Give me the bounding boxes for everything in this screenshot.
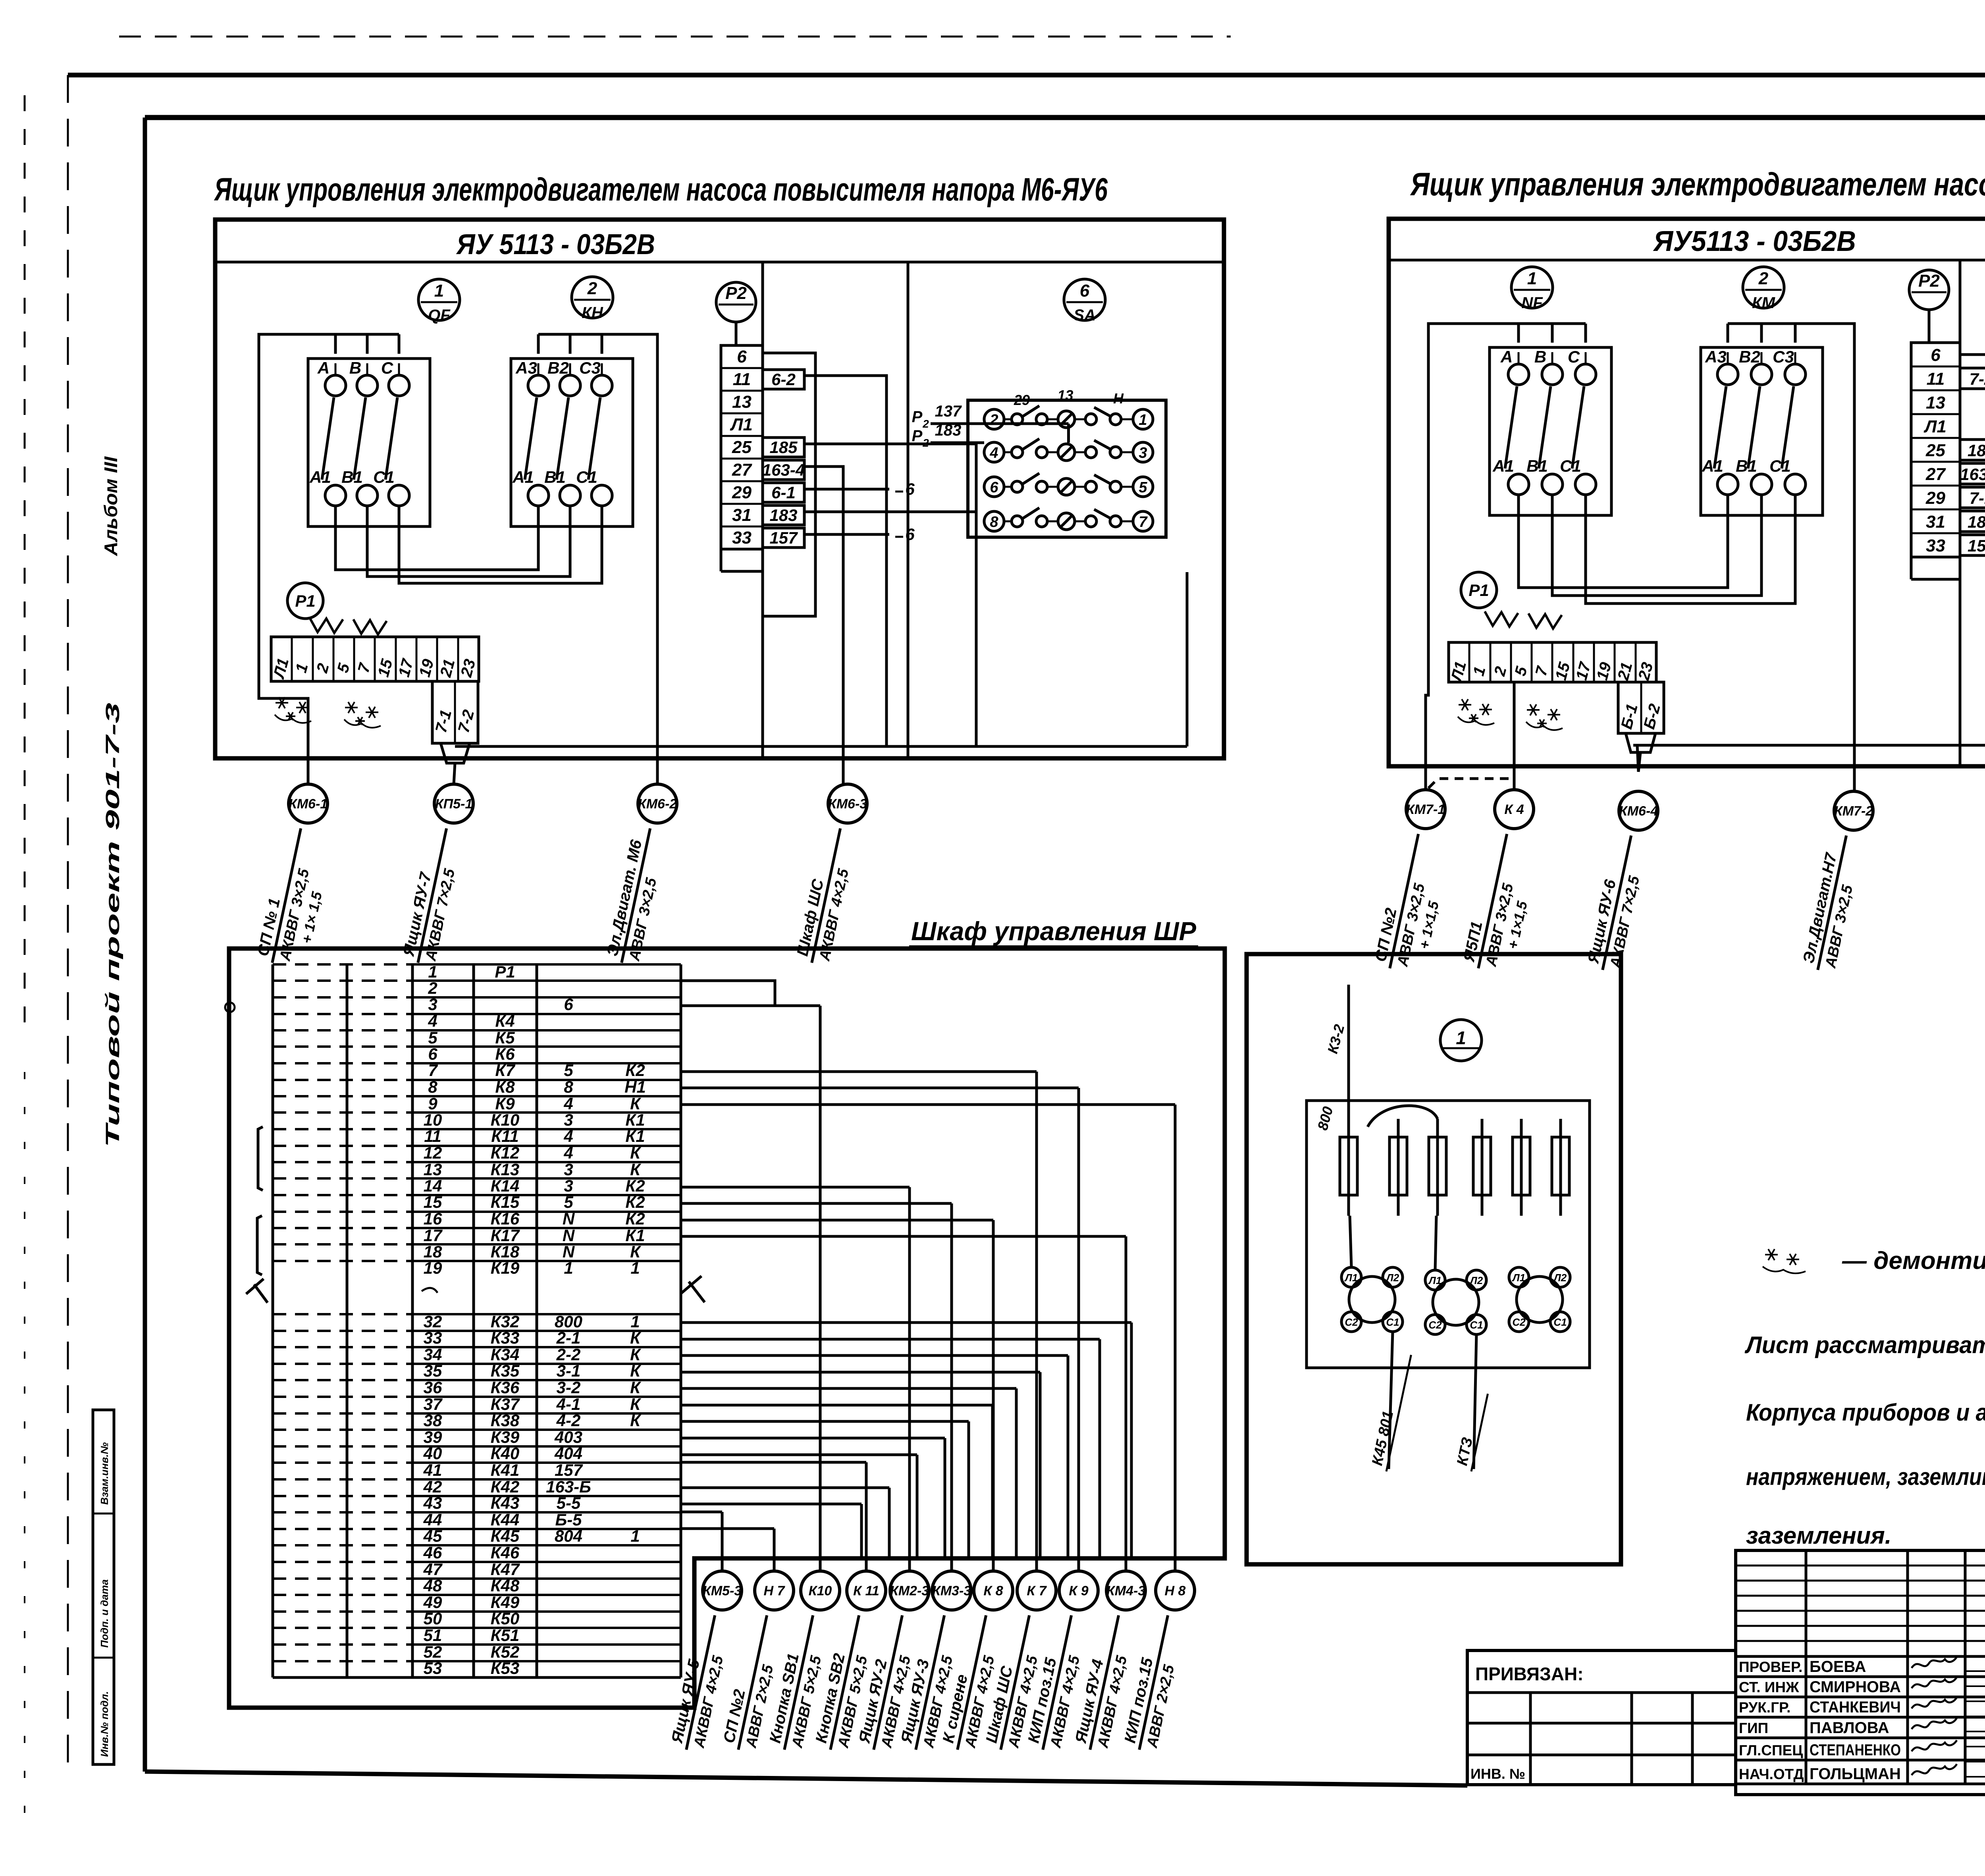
svg-text:2: 2 xyxy=(1758,269,1769,288)
svg-text:А3: А3 xyxy=(515,359,537,377)
svg-text:К35: К35 xyxy=(491,1361,520,1380)
svg-text:К37: К37 xyxy=(491,1395,520,1413)
wire: KN feeder bus to KM6-2 xyxy=(538,334,657,784)
svg-text:6-2: 6-2 xyxy=(771,370,796,389)
svg-text:СТЕПАНЕНКО: СТЕПАНЕНКО xyxy=(1810,1741,1901,1759)
svg-text:41: 41 xyxy=(423,1461,442,1479)
svg-text:Л1: Л1 xyxy=(1923,417,1946,436)
svg-text:А3: А3 xyxy=(1705,347,1727,366)
cable label К 9 xyxy=(1024,1611,1091,1754)
switch blade xyxy=(1782,386,1794,469)
switch blade xyxy=(322,397,334,480)
svg-text:ГОЛЬЦМАН: ГОЛЬЦМАН xyxy=(1810,1765,1901,1783)
svg-text:К34: К34 xyxy=(491,1345,520,1364)
fuse panel inner rect xyxy=(1307,1101,1590,1368)
pin В2 xyxy=(1751,364,1772,385)
svg-text:1: 1 xyxy=(1527,269,1537,288)
signature table xyxy=(1736,1550,1985,1795)
wire bundle extra nets xyxy=(681,1321,1131,1324)
svg-text:К45: К45 xyxy=(491,1527,520,1545)
wire F1 to T1 xyxy=(1350,1216,1351,1267)
svg-text:13: 13 xyxy=(1057,387,1073,403)
signature ГОЛЬЦМАН xyxy=(1912,1764,1957,1775)
wire: QF feeder loop to KM6-1 xyxy=(259,334,399,784)
svg-text:НАЧ.ОТД: НАЧ.ОТД xyxy=(1739,1766,1804,1782)
svg-text:К1: К1 xyxy=(625,1226,645,1245)
svg-text:8: 8 xyxy=(564,1078,573,1096)
svg-text:5: 5 xyxy=(564,1193,573,1211)
svg-text:7-2: 7-2 xyxy=(1970,370,1985,388)
switch blade xyxy=(1714,386,1726,469)
wire row to tag 5 xyxy=(681,1186,910,1189)
svg-text:КП5-1: КП5-1 xyxy=(435,796,473,812)
fuse F5 xyxy=(1520,1119,1523,1216)
terminal table rows xyxy=(412,963,681,966)
switch blade xyxy=(588,397,600,480)
cable tag KM6-2 xyxy=(638,784,677,823)
signature СМИРНОВА xyxy=(1912,1677,1957,1688)
fuse F2 xyxy=(1397,1119,1400,1216)
switch blade xyxy=(1572,386,1584,469)
svg-text:1: 1 xyxy=(564,1259,573,1277)
control box YaU7 outline xyxy=(1389,219,1985,766)
svg-text:SА: SА xyxy=(1073,307,1096,324)
svg-text:157: 157 xyxy=(1968,536,1985,555)
pin С xyxy=(1575,364,1596,385)
svg-text:Лист рассматривать совместно с: Лист рассматривать совместно с листами 1… xyxy=(1744,1332,1985,1358)
svg-text:К: К xyxy=(630,1094,642,1113)
svg-text:157: 157 xyxy=(769,528,798,547)
svg-text:К36: К36 xyxy=(491,1378,520,1397)
svg-text:183: 183 xyxy=(769,506,797,524)
svg-text:46: 46 xyxy=(423,1543,442,1562)
svg-text:К49: К49 xyxy=(491,1593,520,1612)
svg-text:К2: К2 xyxy=(625,1176,645,1195)
svg-text:К: К xyxy=(630,1395,642,1413)
svg-text:Взам.инв.№: Взам.инв.№ xyxy=(98,1442,110,1505)
svg-text:3: 3 xyxy=(428,995,437,1014)
cable label КМ4-3 xyxy=(1071,1611,1139,1754)
svg-text:2: 2 xyxy=(428,979,437,997)
cable tag К10 xyxy=(801,1571,840,1610)
svg-text:10: 10 xyxy=(424,1111,442,1129)
svg-text:5: 5 xyxy=(564,1061,573,1080)
svg-text:К 9: К 9 xyxy=(1069,1583,1088,1598)
svg-text:С3: С3 xyxy=(1773,347,1794,366)
svg-text:Р2: Р2 xyxy=(1918,271,1940,291)
wire bus QF-KM phase A xyxy=(1519,495,1728,588)
svg-text:К19: К19 xyxy=(491,1259,520,1277)
svg-text:ПРИВЯЗАН:: ПРИВЯЗАН: xyxy=(1475,1664,1584,1684)
pin С1 xyxy=(1575,474,1596,495)
svg-text:Б-5: Б-5 xyxy=(555,1510,582,1529)
cable tag К 11 xyxy=(847,1571,886,1610)
pin С xyxy=(389,375,409,396)
signature СТЕПАНЕНКО xyxy=(1912,1740,1957,1751)
breaker QF contact block xyxy=(1490,347,1611,515)
left bracket marks xyxy=(258,1127,263,1190)
svg-text:К8: К8 xyxy=(495,1078,515,1096)
cable tag КМ4-3 xyxy=(1106,1571,1145,1610)
svg-text:К46: К46 xyxy=(491,1543,520,1562)
pin А1 xyxy=(528,485,549,506)
svg-text:ЯУ5113 - 03Б2В: ЯУ5113 - 03Б2В xyxy=(1653,226,1856,257)
svg-text:К38: К38 xyxy=(491,1411,520,1430)
svg-text:6: 6 xyxy=(564,995,573,1014)
svg-text:42: 42 xyxy=(423,1477,442,1496)
wire F3 to T2 xyxy=(1435,1216,1436,1270)
svg-text:КМ2-3: КМ2-3 xyxy=(890,1583,929,1598)
svg-text:Р2: Р2 xyxy=(725,283,747,303)
wire row to tag 4 xyxy=(681,1461,866,1464)
svg-text:4: 4 xyxy=(563,1143,573,1162)
svg-text:К 7: К 7 xyxy=(1027,1583,1047,1598)
pin А1 xyxy=(325,485,346,506)
svg-text:4: 4 xyxy=(989,445,998,461)
svg-text:13: 13 xyxy=(1926,393,1945,413)
pin А1 xyxy=(1717,474,1738,495)
svg-text:25: 25 xyxy=(1925,441,1945,460)
cable tag KM6-1 xyxy=(289,784,328,823)
svg-text:Инв.№ подл.: Инв.№ подл. xyxy=(98,1691,110,1757)
relay P1 circle xyxy=(287,583,323,619)
svg-text:КМ7-2: КМ7-2 xyxy=(1834,804,1873,819)
svg-text:31: 31 xyxy=(1926,512,1945,532)
svg-text:7: 7 xyxy=(428,1061,438,1080)
svg-text:С: С xyxy=(381,359,393,377)
internal divider 2 xyxy=(907,262,910,758)
svg-text:— демонтировать: — демонтировать xyxy=(1842,1247,1985,1274)
svg-text:11: 11 xyxy=(1927,369,1945,389)
svg-text:К50: К50 xyxy=(491,1609,520,1628)
svg-text:804: 804 xyxy=(555,1527,582,1545)
svg-text:6: 6 xyxy=(990,479,998,496)
svg-text:6: 6 xyxy=(737,347,747,366)
svg-text:15: 15 xyxy=(424,1193,442,1211)
svg-text:Н1: Н1 xyxy=(624,1078,646,1096)
svg-text:Корпуса приборов и аппаратов,: Корпуса приборов и аппаратов, которые мо… xyxy=(1746,1399,1985,1426)
switch SA designator circle 6/SA xyxy=(1064,279,1105,320)
svg-text:1: 1 xyxy=(434,281,444,301)
breaker QF designator circle 1/QF xyxy=(418,279,460,320)
cable label К10 xyxy=(765,1611,833,1754)
svg-text:6: 6 xyxy=(1931,345,1941,365)
note demontage legend xyxy=(1765,1254,1778,1255)
wire bus QF-KM phase C xyxy=(1586,495,1795,603)
dashed link KM7-1 to K4 xyxy=(1428,779,1509,788)
svg-text:КМ6-3: КМ6-3 xyxy=(828,796,867,812)
switch blade xyxy=(1505,386,1517,469)
svg-text:К41: К41 xyxy=(491,1461,520,1479)
terminal strip P2 circle xyxy=(1909,270,1949,310)
terminal strip 7-1/7-2 xyxy=(432,681,478,743)
wire net 185 xyxy=(804,444,976,746)
svg-text:КМ: КМ xyxy=(1752,294,1776,312)
pin А1 xyxy=(1508,474,1529,495)
table break marks xyxy=(246,1279,268,1303)
svg-text:К48: К48 xyxy=(491,1576,520,1595)
SA contact row 6-5 xyxy=(984,477,1004,497)
wire K3-2 riser xyxy=(1347,985,1350,1119)
wire net 6-2 xyxy=(804,376,887,746)
wire T2 C1 down KTZ xyxy=(1474,1334,1476,1469)
fuse F3 xyxy=(1436,1119,1439,1216)
node circle on edge xyxy=(225,1003,235,1012)
svg-text:КМ6-1: КМ6-1 xyxy=(289,796,328,812)
pin В xyxy=(1542,364,1563,385)
svg-text:6: 6 xyxy=(905,480,915,498)
wire arc F1-F3 xyxy=(1368,1106,1438,1127)
SA contact row 4-3 xyxy=(984,442,1004,462)
svg-text:С1: С1 xyxy=(1386,1316,1399,1328)
svg-text:40: 40 xyxy=(423,1444,442,1463)
switch blade xyxy=(557,397,569,480)
svg-text:34: 34 xyxy=(424,1345,442,1364)
wire P2 circle to table xyxy=(735,322,738,345)
wire bus QF-KN phase C xyxy=(399,506,602,583)
svg-text:31: 31 xyxy=(732,505,752,525)
svg-text:Ящик управления электродвига: Ящик управления электродвигателем насоса… xyxy=(1410,166,1985,202)
fuse F4 xyxy=(1481,1119,1484,1216)
svg-text:25: 25 xyxy=(732,438,752,457)
wire net 183 xyxy=(804,511,976,513)
svg-text:4: 4 xyxy=(428,1012,437,1030)
cable label SP1 xyxy=(253,824,337,970)
cable tag КМ3-3 xyxy=(932,1571,971,1610)
svg-text:QF: QF xyxy=(428,307,451,324)
svg-text:N: N xyxy=(563,1209,575,1228)
svg-text:Типовой проект 901-7-3: Типовой проект 901-7-3 xyxy=(102,702,123,1147)
pin В2 xyxy=(560,375,580,396)
svg-text:ИНВ. №: ИНВ. № xyxy=(1470,1766,1525,1782)
wire row to tag 7 xyxy=(681,1219,993,1222)
svg-text:К6: К6 xyxy=(495,1045,515,1063)
svg-text:К40: К40 xyxy=(491,1444,520,1463)
svg-text:К10: К10 xyxy=(809,1583,832,1598)
svg-text:В: В xyxy=(349,359,361,377)
svg-text:1: 1 xyxy=(428,962,437,981)
transformer T2 xyxy=(1433,1279,1479,1325)
svg-text:6: 6 xyxy=(428,1045,437,1063)
svg-text:12: 12 xyxy=(424,1143,442,1162)
svg-text:157: 157 xyxy=(555,1461,583,1479)
svg-text:47: 47 xyxy=(423,1560,443,1579)
svg-text:3: 3 xyxy=(564,1111,573,1129)
svg-text:К1: К1 xyxy=(625,1111,645,1129)
svg-text:6: 6 xyxy=(905,525,915,544)
svg-text:К 11: К 11 xyxy=(853,1583,879,1598)
wire bus QF-KM phase B xyxy=(1552,495,1761,596)
outer frame xyxy=(68,73,1985,77)
svg-text:Л2: Л2 xyxy=(1469,1274,1483,1286)
svg-text:3-1: 3-1 xyxy=(557,1361,581,1380)
svg-text:Л1: Л1 xyxy=(1512,1272,1525,1284)
svg-text:1: 1 xyxy=(630,1259,640,1277)
svg-text:К14: К14 xyxy=(491,1176,520,1195)
cable label КМ3-3 xyxy=(897,1611,964,1754)
svg-text:38: 38 xyxy=(424,1411,442,1430)
svg-text:К10: К10 xyxy=(491,1111,520,1129)
svg-text:52: 52 xyxy=(424,1643,442,1661)
pin А3 xyxy=(528,375,549,396)
pin А3 xyxy=(1717,364,1738,385)
page edge artifact top xyxy=(119,36,1231,38)
svg-text:8: 8 xyxy=(428,1078,437,1096)
contactor KM contact block xyxy=(1701,347,1823,515)
svg-text:Р: Р xyxy=(912,408,923,426)
plug connector xyxy=(1626,733,1655,752)
svg-text:КМ6-4: КМ6-4 xyxy=(1619,804,1658,819)
svg-text:С2: С2 xyxy=(1345,1316,1358,1328)
svg-text:Л2: Л2 xyxy=(1553,1272,1567,1284)
svg-text:В1: В1 xyxy=(1526,457,1548,475)
svg-text:51: 51 xyxy=(424,1626,442,1645)
svg-text:183: 183 xyxy=(1968,441,1985,460)
switch blade xyxy=(385,397,397,480)
pin С1 xyxy=(1785,474,1806,495)
wire row to tag 10 xyxy=(681,1235,1126,1238)
svg-text:К53: К53 xyxy=(491,1659,520,1677)
svg-text:К11: К11 xyxy=(491,1127,518,1145)
switch blade xyxy=(525,397,537,480)
breaker QF designator circle 1/NF xyxy=(1511,267,1553,308)
designator circle 1 xyxy=(1440,1020,1482,1061)
svg-text:N: N xyxy=(563,1242,575,1261)
svg-text:Ящик упровления электродвигате: Ящик упровления электродвигателем насоса… xyxy=(214,172,1108,208)
svg-text:К2: К2 xyxy=(625,1061,645,1080)
svg-text:КМ6-2: КМ6-2 xyxy=(638,796,677,812)
cable label К 7 xyxy=(982,1611,1049,1754)
svg-text:С1: С1 xyxy=(1560,457,1581,475)
terminal strip P1 xyxy=(271,637,479,681)
wire net 6 loop xyxy=(1960,355,1985,745)
signature БОЕВА xyxy=(1912,1657,1957,1668)
wire net 6-1 stub xyxy=(804,488,889,491)
box type label xyxy=(215,261,1224,264)
svg-text:К: К xyxy=(630,1328,642,1347)
svg-text:29: 29 xyxy=(732,483,752,502)
svg-text:48: 48 xyxy=(423,1576,442,1595)
svg-text:К15: К15 xyxy=(491,1193,520,1211)
switch SA contact block xyxy=(968,400,1166,537)
cable tag KM5-1 xyxy=(434,784,473,823)
svg-text:В1: В1 xyxy=(1736,457,1757,475)
svg-text:напряжением, заземлить, присое: напряжением, заземлить, присоединением к… xyxy=(1746,1463,1985,1490)
svg-text:27: 27 xyxy=(1925,465,1946,484)
box type label xyxy=(1389,259,1985,262)
svg-text:В2: В2 xyxy=(1739,347,1760,366)
wire row to tag 8 xyxy=(681,1070,1037,1073)
svg-text:6: 6 xyxy=(1080,281,1090,301)
svg-text:163-Б: 163-Б xyxy=(546,1477,591,1496)
svg-text:К: К xyxy=(630,1345,642,1364)
wire: QF feeder loop to KM7-1 xyxy=(1426,324,1586,790)
cable label motor N7 xyxy=(1799,831,1866,974)
cable label К 11 xyxy=(811,1611,879,1754)
cable label Н 7 xyxy=(719,1611,787,1754)
wire row to tag 9 xyxy=(681,1087,1079,1089)
svg-text:КН: КН xyxy=(582,304,603,322)
terminal table columns xyxy=(272,964,274,1677)
svg-text:СТАНКЕВИЧ: СТАНКЕВИЧ xyxy=(1810,1699,1901,1716)
svg-text:К18: К18 xyxy=(491,1242,520,1261)
svg-text:49: 49 xyxy=(423,1593,442,1612)
svg-text:27: 27 xyxy=(732,460,752,480)
svg-text:С2: С2 xyxy=(1428,1319,1442,1331)
svg-text:КМ4-3: КМ4-3 xyxy=(1106,1583,1145,1598)
svg-text:5: 5 xyxy=(1139,479,1147,496)
svg-text:163-4: 163-4 xyxy=(762,461,805,479)
svg-text:С1: С1 xyxy=(1769,457,1791,475)
pin А xyxy=(325,375,346,396)
cable label КМ5-3 xyxy=(667,1611,735,1754)
signature ПАВЛОВА xyxy=(1912,1718,1957,1729)
svg-text:С1: С1 xyxy=(1553,1316,1567,1328)
svg-text:К: К xyxy=(630,1411,642,1430)
svg-text:4-1: 4-1 xyxy=(556,1395,581,1413)
svg-text:3: 3 xyxy=(564,1176,573,1195)
svg-text:К1: К1 xyxy=(625,1127,645,1145)
svg-text:1: 1 xyxy=(630,1527,640,1545)
switch blade xyxy=(1748,386,1760,469)
svg-text:Альбом III: Альбом III xyxy=(100,456,121,556)
svg-text:К: К xyxy=(630,1160,642,1179)
terminal table P2 xyxy=(1911,343,1960,557)
svg-text:С2: С2 xyxy=(1512,1316,1526,1328)
svg-text:2-1: 2-1 xyxy=(556,1328,581,1347)
svg-text:NF: NF xyxy=(1521,294,1543,312)
wire net 6 loop xyxy=(763,353,815,616)
cable label YaBP1 xyxy=(1459,830,1544,976)
plug connector xyxy=(441,743,470,763)
cable label SP2 xyxy=(1371,830,1455,976)
svg-text:А1: А1 xyxy=(512,468,534,486)
wire net 157 stub xyxy=(804,533,889,536)
svg-text:53: 53 xyxy=(424,1659,442,1677)
svg-text:СМИРНОВА: СМИРНОВА xyxy=(1810,1678,1901,1696)
svg-text:17: 17 xyxy=(424,1226,443,1245)
svg-text:39: 39 xyxy=(424,1428,442,1446)
svg-text:С: С xyxy=(1568,347,1580,366)
svg-text:С3: С3 xyxy=(579,359,601,377)
svg-text:В1: В1 xyxy=(341,468,363,486)
svg-text:К52: К52 xyxy=(491,1643,520,1661)
svg-text:163-3: 163-3 xyxy=(1960,465,1985,484)
svg-text:7: 7 xyxy=(1139,514,1148,530)
pin В xyxy=(357,375,378,396)
terminal strip B-1/B-2 xyxy=(1618,682,1664,733)
wire net 163-4 to KM6-3 xyxy=(804,467,843,784)
fuse panel outline xyxy=(1247,954,1621,1564)
pin В1 xyxy=(1751,474,1772,495)
svg-text:К: К xyxy=(630,1143,642,1162)
svg-text:183: 183 xyxy=(935,422,962,439)
svg-text:11: 11 xyxy=(733,370,751,389)
wire SA return xyxy=(1186,572,1189,746)
cable tag KM6-3 xyxy=(828,784,867,823)
svg-text:2: 2 xyxy=(587,279,597,298)
terminal strip P2 circle xyxy=(716,282,756,322)
pin С3 xyxy=(592,375,612,396)
svg-text:Р1: Р1 xyxy=(1469,581,1489,600)
svg-text:8: 8 xyxy=(990,514,998,530)
svg-text:Л1: Л1 xyxy=(1428,1274,1442,1286)
pin С1 xyxy=(389,485,409,506)
internal divider 1 xyxy=(761,262,764,758)
cable label ShS xyxy=(793,824,860,967)
svg-text:37: 37 xyxy=(424,1395,443,1413)
svg-text:Н: Н xyxy=(1113,390,1124,407)
